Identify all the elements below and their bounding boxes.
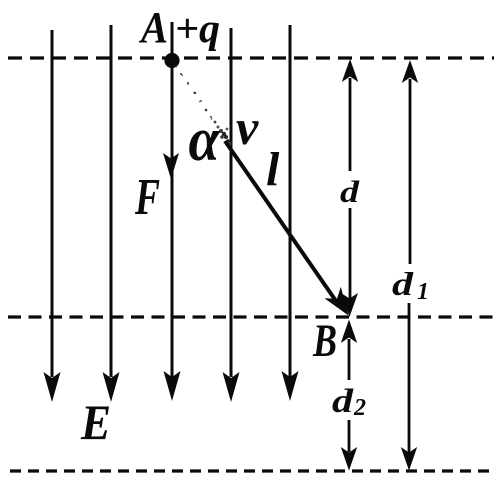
middle plate dashed line bbox=[8, 315, 494, 318]
svg-text:d: d bbox=[340, 174, 360, 209]
dotted initial-velocity trace bbox=[176, 66, 215, 124]
svg-text:E: E bbox=[80, 394, 111, 450]
trajectory line l bbox=[225, 141, 336, 301]
svg-text:1: 1 bbox=[417, 279, 429, 305]
faint v arrowhead speckle bbox=[180, 73, 232, 146]
field line 3 bbox=[164, 22, 181, 401]
distance marker d2 (middle to bottom) bbox=[341, 320, 357, 471]
svg-text:l: l bbox=[266, 143, 280, 196]
distance marker d1 (top to bottom) bbox=[401, 60, 418, 471]
svg-text:α: α bbox=[189, 104, 221, 173]
bottom plate dashed line bbox=[10, 469, 492, 472]
svg-text:d: d bbox=[392, 267, 414, 303]
trajectory arrowhead at B bbox=[324, 287, 348, 316]
svg-text:d: d bbox=[332, 383, 354, 420]
svg-text:2: 2 bbox=[353, 395, 366, 421]
field line 5 bbox=[282, 25, 299, 401]
svg-text:B: B bbox=[312, 315, 337, 367]
field line 2 bbox=[103, 25, 120, 402]
charge dot at A bbox=[164, 53, 179, 68]
field line 1 bbox=[44, 30, 61, 402]
svg-text:+q: +q bbox=[175, 5, 220, 51]
force arrow F head bbox=[163, 153, 179, 179]
top plate dashed line bbox=[8, 56, 494, 59]
field line 4 bbox=[223, 28, 240, 402]
distance marker d (top to middle) bbox=[341, 59, 358, 317]
svg-text:A: A bbox=[138, 3, 168, 52]
svg-text:v: v bbox=[236, 99, 259, 155]
svg-text:F: F bbox=[134, 169, 160, 226]
